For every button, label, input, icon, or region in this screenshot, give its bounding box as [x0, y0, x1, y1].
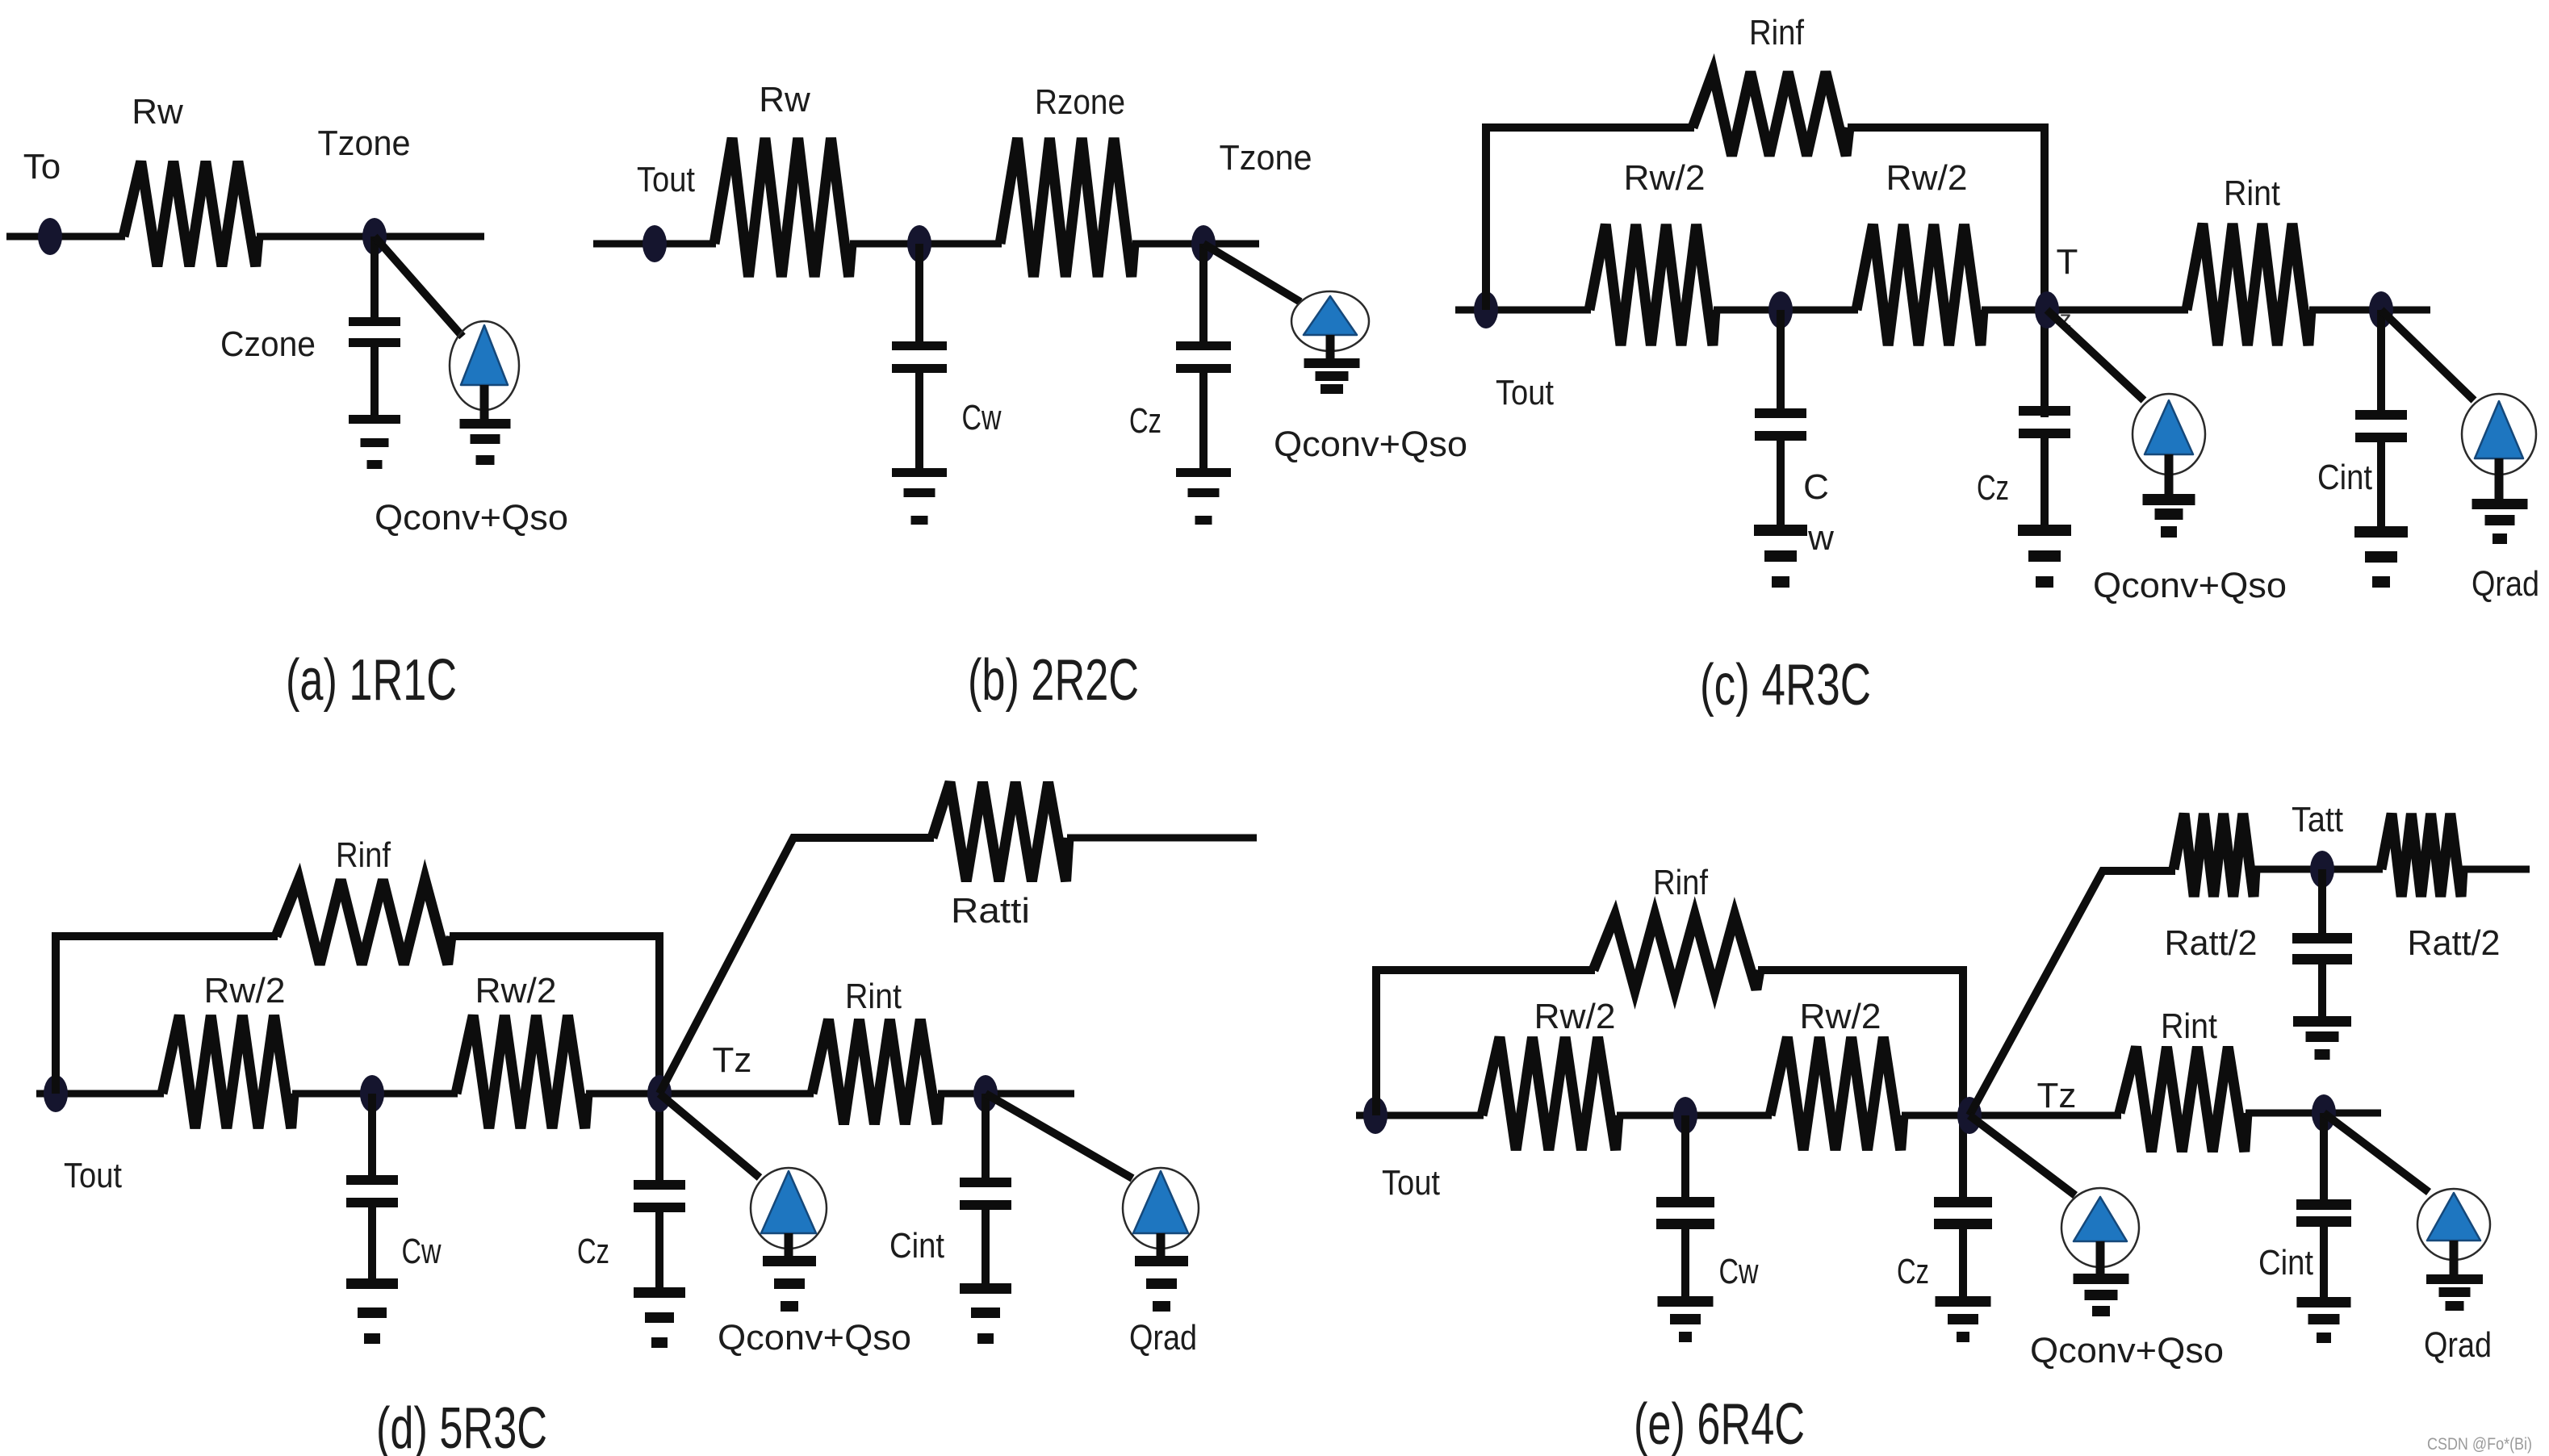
label Qconv+Qso (e) — [2030, 1331, 2224, 1370]
current source Qconv+Qso (c) — [2133, 394, 2205, 496]
node Tout (b) — [642, 225, 667, 262]
wire (e) Tout input — [1356, 1112, 1484, 1119]
svg-text:To: To — [23, 147, 61, 186]
svg-text:Ratt/2: Ratt/2 — [2408, 923, 2501, 963]
svg-text:Rw/2: Rw/2 — [475, 971, 557, 1010]
ground below Qconv source (d) — [763, 1256, 816, 1312]
label Qrad (c) — [2472, 564, 2539, 604]
svg-text:T: T — [2057, 242, 2078, 282]
wire (e) Tz to source — [1969, 1115, 2075, 1195]
svg-text:Qconv+Qso: Qconv+Qso — [718, 1318, 911, 1358]
svg-text:Tout: Tout — [1496, 373, 1554, 412]
label Cz (c) — [1977, 468, 2009, 508]
svg-text:Rzone: Rzone — [1035, 82, 1125, 122]
label Rw/2 right (d) — [475, 971, 557, 1010]
ground below Cw (d) — [346, 1278, 398, 1344]
svg-text:Rw: Rw — [132, 92, 183, 132]
svg-text:C: C — [1803, 467, 1829, 507]
current source Qconv+Qso (d) — [751, 1168, 827, 1257]
label Rw/2 right (c) — [1886, 158, 1968, 198]
capacitor Cw (e) — [1656, 1115, 1714, 1298]
caption (a) 1R1C — [286, 648, 457, 713]
label T (c) — [2057, 242, 2078, 282]
label Qconv+Qso (c) — [2093, 566, 2287, 605]
resistor Rw (a) — [123, 161, 258, 266]
ground below Qrad (c) — [2472, 499, 2528, 544]
wire (d) Tout input — [36, 1090, 164, 1098]
resistor Rw/2 left (d) — [162, 1015, 294, 1128]
node Tout (c) — [1474, 291, 1498, 328]
svg-text:Qrad: Qrad — [2424, 1325, 2492, 1365]
wire (c) Tz to source — [2047, 310, 2144, 400]
current source Qrad (c) — [2462, 394, 2536, 500]
current source Qconv+Qso (a) — [450, 321, 519, 420]
node Tout (e) — [1363, 1097, 1388, 1134]
svg-text:CSDN @Fo*(Bi): CSDN @Fo*(Bi) — [2427, 1435, 2532, 1454]
svg-text:Rw: Rw — [759, 80, 810, 119]
svg-text:Rint: Rint — [2161, 1006, 2217, 1046]
label Cz (d) — [577, 1232, 609, 1271]
wire (e) Ratt mid — [2254, 866, 2383, 873]
label Cw (b) — [962, 398, 1002, 437]
svg-text:Rint: Rint — [2224, 174, 2280, 213]
label Tout (e) — [1382, 1163, 1440, 1203]
svg-text:Cint: Cint — [889, 1226, 944, 1266]
label Czone — [220, 324, 316, 364]
watermark CSDN @Fo*(Bi) — [2427, 1435, 2532, 1454]
caption (b) 2R2C — [968, 648, 1139, 713]
ground below Qconv source (e) — [2074, 1274, 2129, 1316]
resistor Rw/2 left (c) — [1589, 224, 1715, 345]
svg-text:Qconv+Qso: Qconv+Qso — [375, 498, 568, 538]
label Rint (e) — [2161, 1006, 2217, 1046]
svg-text:Tout: Tout — [1382, 1163, 1440, 1203]
capacitor Cint (e) — [2296, 1113, 2351, 1299]
svg-text:Cz: Cz — [1897, 1252, 1929, 1291]
svg-text:Cw: Cw — [1719, 1252, 1759, 1291]
wire (b) Tout input — [593, 241, 716, 248]
node Tz (e) — [1957, 1097, 1982, 1134]
svg-text:Tzone: Tzone — [318, 123, 411, 163]
label Rinf (c) — [1749, 13, 1805, 52]
capacitor Cz (c) — [2019, 406, 2070, 526]
label Rw (b) — [759, 80, 810, 119]
label Tout (c) — [1496, 373, 1554, 412]
node Tz (c) — [2035, 291, 2059, 328]
label Cint (e) — [2258, 1243, 2313, 1282]
resistor Rint (c) — [2187, 224, 2311, 345]
svg-text:(b) 2R2C: (b) 2R2C — [968, 648, 1139, 713]
label Cint (d) — [889, 1226, 944, 1266]
svg-text:Tout: Tout — [637, 160, 695, 199]
svg-text:Cz: Cz — [577, 1232, 609, 1271]
svg-text:Cz: Cz — [1977, 468, 2009, 508]
label Rw/2 left (d) — [204, 971, 286, 1010]
label Rinf (e) — [1653, 863, 1709, 902]
wire (e) Rw/2 to Rint — [1902, 1112, 2121, 1119]
resistor Rinf (d) — [276, 880, 451, 964]
svg-text:Qconv+Qso: Qconv+Qso — [2030, 1331, 2224, 1370]
resistor Ratti — [932, 782, 1069, 881]
label Tout (d) — [64, 1156, 122, 1195]
wire (b) Rw to Rzone — [850, 241, 1002, 248]
svg-text:Cw: Cw — [962, 398, 1002, 437]
svg-text:Rw/2: Rw/2 — [204, 971, 286, 1010]
label Cint (c) — [2317, 458, 2372, 497]
wire (d) Rw/2 to Rint — [586, 1090, 814, 1098]
label Qconv+Qso (a) — [375, 498, 568, 538]
label Tz (e) — [2037, 1076, 2077, 1115]
ground below Cw (e) — [1658, 1296, 1714, 1342]
node wall node (c) — [1768, 291, 1793, 328]
ground below Cz (e) — [1936, 1296, 1991, 1342]
svg-text:Tz: Tz — [713, 1040, 752, 1080]
resistor Rinf (e) — [1593, 916, 1760, 989]
node wall node (e) — [1673, 1097, 1697, 1134]
svg-text:Qrad: Qrad — [1129, 1318, 1197, 1358]
wire (a) To input — [6, 233, 125, 241]
svg-text:Tz: Tz — [2037, 1076, 2077, 1115]
svg-text:Cw: Cw — [402, 1232, 442, 1271]
ground below Cint (c) — [2354, 526, 2408, 588]
svg-text:w: w — [1807, 518, 1834, 558]
svg-text:Qconv+Qso: Qconv+Qso — [2093, 566, 2287, 605]
ground below Cw (b) — [892, 468, 947, 525]
current source Qconv+Qso (e) — [2061, 1188, 2139, 1275]
node To — [38, 218, 62, 255]
svg-text:Rw/2: Rw/2 — [1800, 997, 1881, 1036]
svg-text:Tzone: Tzone — [1220, 138, 1312, 178]
label Rzone — [1035, 82, 1125, 122]
wire (e) Rinf to Tz branch — [1758, 970, 1963, 1200]
svg-text:Tout: Tout — [64, 1156, 122, 1195]
ground below Cz (b) — [1176, 468, 1231, 525]
svg-text:Rinf: Rinf — [1653, 863, 1709, 902]
capacitor Cz (d) — [634, 1180, 685, 1289]
label Rw — [132, 92, 183, 132]
svg-text:Ratti: Ratti — [951, 891, 1030, 931]
svg-text:Cint: Cint — [2317, 458, 2372, 497]
resistor Rw (b) — [714, 138, 852, 277]
resistor Rw/2 right (e) — [1770, 1037, 1903, 1150]
ground below Cint (d) — [960, 1283, 1011, 1344]
svg-text:Rinf: Rinf — [1749, 13, 1805, 52]
node Tint (d) — [973, 1075, 998, 1112]
ground below source (b) — [1304, 358, 1360, 394]
wire (c) Rw/2 to Rint — [1982, 307, 2188, 314]
label Ratti — [951, 891, 1030, 931]
label Rw/2 right (e) — [1800, 997, 1881, 1036]
label Ratt/2 right — [2408, 923, 2501, 963]
node Tz (d) — [647, 1075, 672, 1112]
svg-text:Qconv+Qso: Qconv+Qso — [1274, 425, 1467, 464]
node Tatt — [2310, 851, 2334, 888]
ground below Cw (c) — [1754, 525, 1807, 588]
wire (d) Tz up to Ratti — [659, 838, 934, 1094]
label Tz (d) — [713, 1040, 752, 1080]
wire (d) between Rw/2 — [292, 1090, 458, 1098]
svg-text:Rint: Rint — [845, 977, 902, 1016]
resistor Rinf (c) — [1693, 72, 1849, 156]
svg-text:Rw/2: Rw/2 — [1886, 158, 1968, 198]
wire (c) Rinf to Tz branch — [1848, 128, 2045, 417]
label To — [23, 147, 61, 186]
capacitor Cw (d) — [346, 1094, 398, 1280]
capacitor Cw (c) — [1755, 310, 1806, 526]
ground below Cz (d) — [634, 1287, 685, 1348]
node wall node (b) — [907, 225, 931, 262]
svg-text:Cz: Cz — [1129, 401, 1161, 441]
wire (b) Rzone to Tzone — [1132, 241, 1259, 248]
wire (c) right node to Qrad — [2381, 310, 2474, 400]
wire (d) Tz to source — [659, 1094, 760, 1178]
label Tatt — [2292, 800, 2343, 839]
current source Qrad (e) — [2417, 1189, 2490, 1276]
label Tout (b) — [637, 160, 695, 199]
svg-text:Tatt: Tatt — [2292, 800, 2343, 839]
capacitor Cw (b) — [892, 244, 947, 470]
svg-text:(d) 5R3C: (d) 5R3C — [376, 1396, 547, 1456]
wire (e) between Rw/2 — [1617, 1112, 1772, 1119]
node wall node (d) — [360, 1075, 384, 1112]
svg-text:(e) 6R4C: (e) 6R4C — [1634, 1392, 1805, 1456]
caption (d) 5R3C — [376, 1396, 547, 1456]
svg-text:(c) 4R3C: (c) 4R3C — [1700, 653, 1871, 718]
node Tint (e) — [2312, 1094, 2336, 1132]
wire (d) Rinf to Tz branch — [450, 936, 659, 1182]
label Ratt/2 left — [2165, 923, 2258, 963]
wire (d) Rint to right node — [938, 1090, 1074, 1098]
wire (e) Tz up to Ratt — [1969, 871, 2175, 1115]
label Rw/2 left (e) — [1534, 997, 1616, 1036]
svg-text:Rw/2: Rw/2 — [1534, 997, 1616, 1036]
resistor Ratt/2 right — [2381, 814, 2463, 897]
ground below Qrad (e) — [2426, 1274, 2483, 1311]
svg-text:Ratt/2: Ratt/2 — [2165, 923, 2258, 963]
capacitor Catt — [2292, 869, 2352, 1018]
resistor Ratt/2 left — [2174, 814, 2255, 897]
caption (c) 4R3C — [1700, 653, 1871, 718]
node Tint (c) — [2369, 291, 2393, 328]
label Rw/2 left (c) — [1624, 158, 1706, 198]
resistor Rzone — [1000, 138, 1134, 277]
svg-text:Cint: Cint — [2258, 1243, 2313, 1282]
svg-text:Rw/2: Rw/2 — [1624, 158, 1706, 198]
resistor Rint (d) — [812, 1019, 940, 1124]
wire (e) Ratt out — [2461, 866, 2530, 873]
label Rinf (d) — [336, 835, 391, 875]
svg-text:(a) 1R1C: (a) 1R1C — [286, 648, 457, 713]
label Cz (e) — [1897, 1252, 1929, 1291]
wire (c) up to Rinf — [1486, 128, 1694, 310]
label Qrad (d) — [1129, 1318, 1197, 1358]
label Qconv+Qso (d) — [718, 1318, 911, 1358]
wire (e) right node to Qrad — [2324, 1113, 2429, 1192]
node Tout (d) — [44, 1075, 68, 1112]
current source Qrad (d) — [1123, 1168, 1199, 1257]
ground below Cz (c) — [2018, 525, 2071, 588]
wire (a) Tzone to source — [375, 236, 463, 337]
label C of Cw (c) — [1803, 467, 1829, 507]
wire (c) between Rw/2 — [1714, 307, 1858, 314]
wire (c) Rint to right node — [2309, 307, 2430, 314]
resistor Rint (e) — [2120, 1047, 2247, 1152]
wire (b) Tzone to source — [1203, 244, 1300, 302]
wire (d) Ratti out — [1067, 835, 1257, 842]
resistor Rw/2 right (c) — [1856, 224, 1983, 345]
ground below Catt — [2293, 1016, 2351, 1060]
capacitor Cint (c) — [2355, 310, 2407, 526]
ground below Qconv source (c) — [2143, 494, 2195, 538]
label w of Cw (c) — [1807, 518, 1834, 558]
svg-text:Czone: Czone — [220, 324, 316, 364]
label Qconv+Qso (b) — [1274, 425, 1467, 464]
capacitor Cz (b) — [1176, 244, 1231, 470]
label Tzone (b) — [1220, 138, 1312, 178]
resistor Rw/2 right (d) — [456, 1015, 588, 1128]
wire (c) Tout input — [1455, 307, 1591, 314]
capacitor Cint (d) — [960, 1094, 1011, 1285]
label Tzone — [318, 123, 411, 163]
node Tzone — [362, 218, 387, 255]
caption (e) 6R4C — [1634, 1392, 1805, 1456]
svg-text:Rinf: Rinf — [336, 835, 391, 875]
wire (a) Rw to Tzone — [257, 233, 484, 241]
ground below Cint (e) — [2297, 1297, 2351, 1343]
ground below source (a) — [460, 419, 511, 465]
capacitor Czone — [349, 236, 400, 416]
current source Qconv+Qso (b) — [1291, 291, 1369, 360]
wire (d) right node to Qrad — [986, 1094, 1132, 1178]
label Cz (b) — [1129, 401, 1161, 441]
label Cw (e) — [1719, 1252, 1759, 1291]
ground below Czone — [349, 415, 400, 469]
wire (e) up to Rinf — [1376, 970, 1595, 1115]
wire (e) Rint to right node — [2246, 1110, 2381, 1117]
label Rint (c) — [2224, 174, 2280, 213]
capacitor Cz (e) — [1934, 1197, 1992, 1298]
ground below Qrad (d) — [1135, 1256, 1188, 1312]
label z subscript (c) — [2060, 306, 2072, 333]
wire (d) up to Rinf — [56, 936, 278, 1094]
label Rint (d) — [845, 977, 902, 1016]
node Tzone (b) — [1191, 225, 1216, 262]
resistor Rw/2 left (e) — [1482, 1037, 1618, 1150]
label Cw (d) — [402, 1232, 442, 1271]
svg-text:Qrad: Qrad — [2472, 564, 2539, 604]
label Qrad (e) — [2424, 1325, 2492, 1365]
